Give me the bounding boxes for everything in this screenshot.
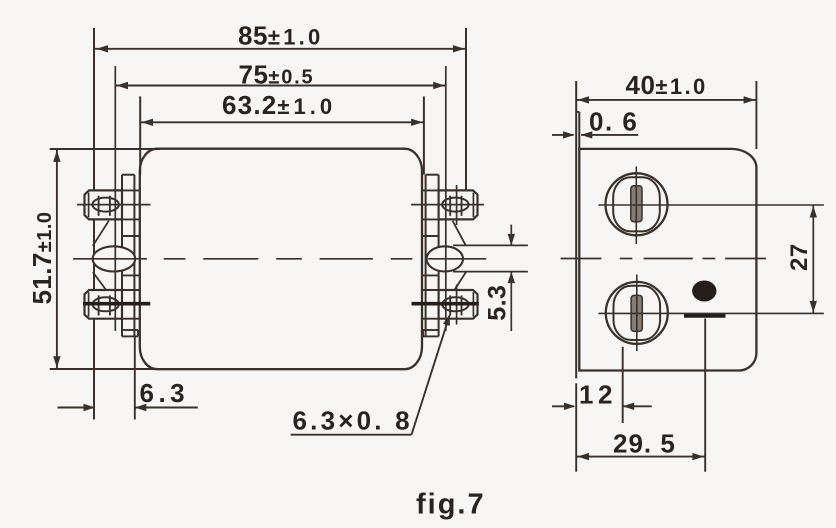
6.3 dim line left part [58, 407, 96, 409]
left flange step lines [122, 189, 140, 191]
screw centerline vertical right (75 ext / keyhole) [445, 66, 447, 331]
svg-text:85±1.0: 85±1.0 [238, 21, 323, 51]
bottom screw horizontal centerline / 27 ext bottom [598, 312, 824, 314]
svg-text:6.3: 6.3 [140, 378, 190, 408]
6.3 arrow pointing right [84, 404, 96, 411]
40 extension right [755, 81, 757, 149]
12 left outside arrow line [552, 405, 574, 407]
6.3 arrow pointing left [135, 404, 147, 411]
6.3 extension line right [134, 336, 136, 419]
arrow 40 left [578, 96, 590, 103]
6.3 dim line right part [135, 407, 198, 409]
arrow 51.7 top [53, 150, 60, 162]
bottom screw vertical centerline [636, 275, 638, 352]
left flange plate edges [121, 175, 123, 337]
ground terminal thick line [684, 314, 726, 318]
bracket fold diagonal lower left [93, 272, 108, 293]
screw centerline horizontal top-right [411, 204, 484, 206]
12 dim line right part [623, 405, 652, 407]
arrow 51.7 bottom [53, 356, 60, 368]
bottom screw inner rounded square [614, 286, 661, 340]
extension line 63.2 right [423, 96, 425, 174]
arrow 63.2 right [411, 119, 423, 126]
svg-text:fig.7: fig.7 [416, 488, 486, 520]
27 dim line [812, 205, 814, 313]
svg-text:63.2±1.0: 63.2±1.0 [222, 90, 336, 120]
5.3 dim line lower [510, 272, 512, 331]
svg-text:5.3: 5.3 [484, 285, 512, 321]
6.3x0.8 label underline [291, 434, 412, 436]
dim line 40 [576, 99, 756, 101]
screw centerline bottom-right lug [456, 285, 458, 325]
0.6 left outside arrow line [552, 134, 574, 136]
dim line 75 [115, 85, 446, 87]
screw centerline horizontal top-left [77, 204, 151, 206]
bottom screw outer circle [606, 282, 668, 344]
keyhole ellipse right [427, 246, 463, 271]
side view flange left face [575, 81, 577, 378]
extension line left (85 dim / 6.3 dim) [93, 28, 95, 420]
dim line 29.5 [576, 456, 705, 458]
27 arrow up [810, 206, 817, 218]
bottom-left screw head [93, 297, 119, 311]
centerline side view dash segments [620, 258, 633, 260]
top screw slot [631, 186, 642, 222]
terminal blade thick line bottom-right [412, 302, 479, 306]
5.3 arrow up [508, 272, 515, 284]
bottom screw slot [631, 295, 642, 331]
centerline side view solid through flange [561, 258, 602, 260]
bottom-left mounting lug [85, 290, 123, 319]
arrow 75 left [117, 82, 129, 89]
bracket fold diagonal upper left [93, 221, 109, 246]
top-right screw head [442, 198, 468, 212]
6.3x0.8 leader line [412, 316, 450, 435]
svg-text:0. 6: 0. 6 [589, 107, 638, 137]
0.6 arrow pointing right [563, 131, 575, 138]
top-left mounting lug [85, 190, 123, 219]
svg-text:27: 27 [786, 243, 813, 271]
dim line 85 [95, 48, 466, 50]
bottom-right mounting lug [439, 290, 478, 319]
extension line right (85 dim) [465, 28, 467, 190]
svg-text:12: 12 [579, 380, 617, 410]
12 arrow pointing right [564, 403, 576, 410]
extension line 63.2 left [139, 96, 141, 174]
12 extension line [622, 347, 624, 423]
arrow 85 right [453, 45, 465, 52]
arrow 40 right [744, 96, 756, 103]
right flange plate edges [425, 175, 427, 337]
svg-text:6.3×0. 8: 6.3×0. 8 [293, 406, 413, 436]
side view flange top cap [576, 111, 579, 113]
arrow 63.2 left [142, 119, 154, 126]
side view body outline [579, 149, 756, 371]
screw centerline vertical left [114, 66, 116, 331]
arrow 29.5 right [692, 453, 704, 460]
5.3 dim line upper [510, 225, 512, 246]
terminal blade thick line bottom-left [83, 302, 150, 306]
screw centerline top-right lug [456, 185, 458, 225]
svg-text:40±1.0: 40±1.0 [626, 70, 708, 100]
29.5 extension line right [704, 319, 706, 472]
ground dot [692, 281, 716, 302]
0.6 dim line right [581, 134, 638, 136]
dim line 63.2 [140, 121, 424, 123]
top screw inner rounded square [613, 177, 660, 231]
keyhole ellipse left [93, 246, 136, 271]
dim line 51.7 [56, 149, 58, 368]
arrow 29.5 left [578, 453, 590, 460]
bracket fold diagonal lower right [453, 272, 466, 293]
extension line 51.7 top [50, 148, 160, 150]
bottom-right screw head [442, 297, 468, 311]
5.3 extension line top [453, 244, 528, 246]
top screw vertical centerline [635, 167, 637, 245]
5.3 extension line bottom [453, 271, 528, 273]
arrow 85 left [97, 45, 109, 52]
left flange bottom notch [122, 329, 138, 331]
6.3x0.8 leader arrow [443, 314, 450, 326]
top-right mounting lug [439, 190, 478, 219]
right flange bottom notch [423, 329, 439, 331]
27 arrow down [810, 301, 817, 313]
29.5 extension line left [575, 383, 577, 472]
bracket fold diagonal upper right [453, 221, 466, 246]
centerline left view solid through left keyhole [73, 258, 147, 260]
top screw horizontal centerline / 27 ext top [598, 204, 824, 206]
side view flange right face [578, 112, 580, 149]
right flange step lines [422, 189, 439, 191]
0.6 arrow pointing left [581, 131, 593, 138]
top-left screw head [93, 198, 119, 212]
centerline left view dashed [164, 258, 186, 260]
svg-text:29. 5: 29. 5 [613, 428, 676, 458]
5.3 arrow down [508, 234, 515, 246]
top screw outer circle [606, 173, 668, 235]
12 arrow pointing left [623, 403, 635, 410]
centerline left view solid through right keyhole [428, 258, 486, 260]
extension line 51.7 bottom [50, 368, 165, 370]
body outline left view [140, 149, 422, 370]
arrow 75 right [433, 82, 445, 89]
